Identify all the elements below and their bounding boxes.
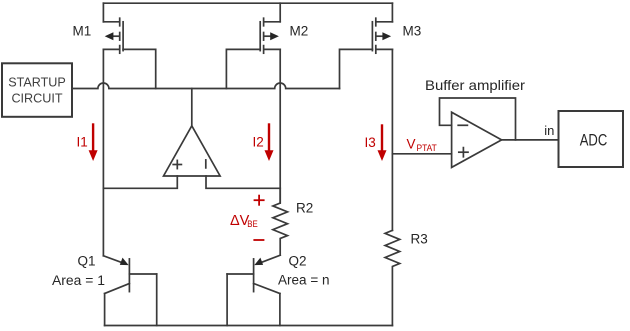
svg-text:CIRCUIT: CIRCUIT [11, 92, 62, 106]
transistor M2 [260, 3, 280, 53]
wire gate bias line with crossover hops [72, 83, 340, 88]
wire M1 gate to bias line [123, 49, 156, 88]
wire M2 drain down to R2 [279, 49, 281, 203]
svg-text:I3: I3 [365, 135, 376, 150]
wire VPTAT node to buffer input [392, 153, 451, 155]
svg-text:Buffer amplifier: Buffer amplifier [425, 77, 525, 93]
svg-text:Q1: Q1 [78, 254, 96, 269]
svg-text:Area = n: Area = n [278, 273, 330, 288]
svg-text:M3: M3 [403, 24, 422, 39]
wire M3 drain down to R3 [391, 49, 393, 230]
transistor Q1 [103, 256, 156, 326]
svg-text:R3: R3 [411, 232, 428, 247]
transistor Q2 [227, 255, 280, 325]
current arrow I1 [89, 125, 98, 162]
resistor R3 [385, 230, 400, 325]
current arrow I2 [265, 125, 274, 162]
startup circuit block [2, 63, 72, 117]
resistor R2 [273, 188, 288, 255]
label delta VBE [230, 213, 258, 230]
svg-text:M1: M1 [73, 24, 92, 39]
op-amp buffer U2 [452, 112, 502, 167]
ADC block [559, 111, 624, 167]
wire buffer output to ADC [502, 139, 559, 141]
svg-text:I1: I1 [77, 135, 88, 150]
transistor M1 [103, 3, 123, 53]
wire top supply rail [103, 2, 392, 4]
svg-text:Q2: Q2 [289, 254, 307, 269]
svg-text:in: in [544, 123, 554, 138]
current arrow I3 [378, 126, 387, 162]
wire buffer feedback loop [440, 98, 516, 140]
op-amp U1 [164, 126, 221, 176]
transistor M3 [372, 3, 392, 53]
svg-text:STARTUP: STARTUP [8, 76, 66, 90]
svg-text:V: V [407, 137, 416, 152]
wire op-amp inverting input [206, 176, 280, 188]
svg-text:BE: BE [247, 219, 257, 230]
svg-text:M2: M2 [290, 24, 309, 39]
wire M2 gate to bias line [226, 49, 260, 88]
wire bottom rail [105, 325, 393, 327]
wire M3 gate to bias line [340, 49, 373, 88]
svg-text:R2: R2 [296, 201, 313, 216]
label VPTAT [407, 137, 438, 153]
wire op-amp output to bias line [191, 89, 193, 126]
label delta VBE minus [254, 239, 263, 241]
wire op-amp noninverting input [103, 176, 177, 188]
label delta VBE plus [255, 196, 264, 205]
svg-text:PTAT: PTAT [417, 143, 438, 153]
wire M1 drain down (left branch) [102, 49, 104, 255]
svg-text:ADC: ADC [580, 131, 608, 149]
svg-text:I2: I2 [253, 135, 264, 150]
svg-text:Area = 1: Area = 1 [52, 273, 105, 288]
